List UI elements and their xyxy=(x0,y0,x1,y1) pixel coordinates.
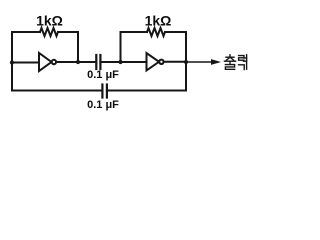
wire bottom rail left of C2 xyxy=(12,90,102,92)
wire C1 to inverter 2 input xyxy=(100,61,146,63)
node feedback 1 output junction xyxy=(76,60,80,64)
inverter U2 xyxy=(147,53,164,71)
wire feedback 1 right vertical xyxy=(77,32,79,62)
capacitor C2 xyxy=(102,85,107,98)
label output 출력 (drawn strokes) xyxy=(224,55,246,70)
node feedback 2 input junction xyxy=(118,60,122,64)
wire top feedback 2 left segment xyxy=(121,31,148,33)
svg-text:1kΩ: 1kΩ xyxy=(145,13,172,29)
resistor R1 xyxy=(40,28,58,36)
svg-text:0.1 μF: 0.1 μF xyxy=(87,99,119,111)
wire output arrow xyxy=(186,59,221,65)
node output junction xyxy=(184,60,188,64)
inverter U1 xyxy=(39,53,56,71)
wire top feedback 1 left segment xyxy=(12,31,40,33)
svg-text:1kΩ: 1kΩ xyxy=(36,13,63,29)
wire top feedback 1 right segment xyxy=(58,31,78,33)
wire bottom rail right of C2 xyxy=(107,90,186,92)
wire left vertical rail xyxy=(11,32,13,91)
wire right vertical rail xyxy=(185,32,187,91)
력 xyxy=(239,56,244,61)
wire inverter 1 output xyxy=(56,61,96,63)
wire inverter 1 input xyxy=(12,62,39,64)
capacitor C1 xyxy=(96,55,100,69)
node input junction xyxy=(10,60,14,64)
wire inverter 2 output xyxy=(164,61,186,63)
resistor R2 xyxy=(147,28,165,36)
출 xyxy=(229,55,231,56)
wire top feedback 2 right segment xyxy=(165,31,186,33)
wire feedback 2 left vertical xyxy=(120,32,122,62)
svg-text:0.1 μF: 0.1 μF xyxy=(87,69,119,81)
